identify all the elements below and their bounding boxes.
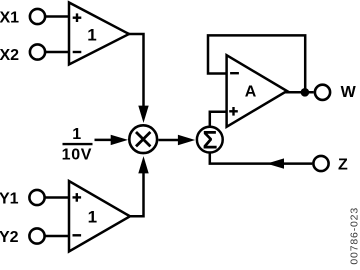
op-amp X buffer gain 1 (69, 3, 129, 65)
svg-text:1: 1 (88, 208, 97, 227)
svg-text:10V: 10V (62, 146, 93, 163)
terminal Y2 (29, 228, 44, 243)
wire X2 to amp (46, 51, 69, 53)
svg-text:Y2: Y2 (0, 229, 19, 246)
arrowhead into multiplier top (138, 106, 148, 123)
wire op-amp output to W (285, 91, 314, 94)
arrowhead into multiplier left (111, 135, 128, 145)
wire Y amp output to multiplier (129, 173, 144, 217)
svg-text:X1: X1 (0, 9, 19, 26)
terminal X2 (30, 44, 45, 59)
svg-text:X2: X2 (0, 47, 19, 64)
wire Y1 to amp (45, 196, 69, 198)
terminal Z (313, 156, 328, 171)
arrowhead into summer (178, 135, 195, 145)
op-amp A (227, 55, 287, 127)
op-amp Y buffer gain 1 (69, 181, 130, 252)
terminal Y1 (29, 190, 44, 205)
summer sigma (197, 127, 223, 155)
terminal X1 (30, 9, 45, 24)
arrowhead from Z into summer path (267, 158, 284, 168)
svg-text:00786-023: 00786-023 (348, 207, 360, 265)
svg-text:1: 1 (87, 26, 96, 45)
feedback wire from output to minus input (208, 35, 305, 92)
svg-text:Y1: Y1 (0, 190, 19, 207)
svg-text:1: 1 (72, 126, 81, 143)
wire X amp output to multiplier (128, 34, 144, 107)
wire multiplier to summer (158, 139, 179, 142)
scale factor 1/10V label (62, 126, 93, 164)
multiplier (129, 125, 157, 153)
wire summer to Z (210, 152, 312, 163)
wire 1/10V into multiplier (95, 139, 113, 142)
wire summer to op-amp plus input (210, 112, 228, 127)
svg-text:A: A (245, 84, 257, 101)
terminal W (315, 85, 330, 100)
junction dot at output (301, 88, 310, 97)
svg-text:W: W (341, 84, 357, 101)
svg-text:Σ: Σ (202, 128, 217, 155)
svg-text:Z: Z (338, 157, 348, 174)
wire Y2 to amp (45, 235, 69, 237)
wire X1 to amp (46, 15, 69, 17)
arrowhead into multiplier bottom (138, 156, 148, 173)
